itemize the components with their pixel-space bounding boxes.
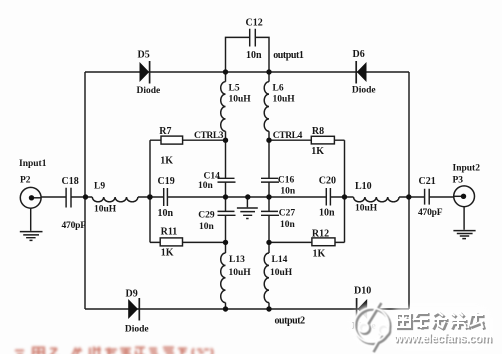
junction C12 left leg / top rail [223,69,228,74]
capacitor C29 [218,211,236,215]
wire L14 to bottom rail [268,303,270,309]
svg-text:C27: C27 [279,208,296,218]
svg-text:10n: 10n [280,187,296,197]
junction C20 / R8-R12 loop / L10 [342,194,347,199]
ground P2 stub [30,208,32,231]
svg-text:10n: 10n [319,208,335,219]
watermark chinese brand glyphs [397,312,485,330]
svg-text:1K: 1K [311,146,324,157]
left column top stub [225,72,227,82]
svg-text:output2: output2 [275,316,306,327]
resistor R11 [160,238,182,246]
connector P2 pin line [34,197,42,199]
svg-text:L9: L9 [94,182,105,192]
svg-text:C20: C20 [319,176,336,187]
junction C12 right leg / top rail [266,69,271,74]
diode D10 [358,299,368,319]
wire L5 to CTRL3 node [225,131,227,140]
svg-text:D9: D9 [126,289,138,300]
svg-text:Input2: Input2 [453,164,481,174]
svg-text:C29: C29 [198,210,215,220]
svg-text:10n: 10n [199,222,215,232]
junction ground stub / center wire [245,194,250,199]
connector P3 center dot [461,194,466,199]
wire input1 to C18 [41,196,66,198]
wire left rail [84,72,86,309]
svg-text:C16: C16 [278,175,295,185]
svg-text:10n: 10n [158,208,174,219]
connector P3 pin line [454,195,461,197]
wire L13 to bottom rail [225,303,227,309]
svg-text:10uH: 10uH [229,268,252,278]
ground P2 bars [20,232,43,241]
svg-text:CTRL3: CTRL3 [194,131,224,141]
connector P2 center dot [29,195,34,200]
svg-text:L6: L6 [273,84,284,94]
svg-text:D6: D6 [353,49,365,60]
connector P3 circle [454,186,475,207]
watermark white glow backdrop [352,305,489,346]
svg-text:C18: C18 [62,176,79,187]
capacitor C12 branch [226,37,270,72]
svg-text:L10: L10 [355,181,372,192]
svg-text:470pF: 470pF [418,208,443,218]
inductor L10 [354,197,400,202]
wire center to right column [226,196,270,198]
inductor L13 [221,253,226,303]
svg-text:1K: 1K [313,248,326,259]
ground P3 bars [453,231,475,239]
svg-text:R7: R7 [159,126,171,137]
node CTRL3 [223,138,228,143]
svg-text:www.elecfans.com: www.elecfans.com [393,333,492,345]
svg-text:C12: C12 [246,18,263,29]
ground center bars [237,208,258,219]
svg-text:C19: C19 [158,176,175,187]
junction L14 / bottom rail [266,306,271,311]
wire C20 to L10 [331,196,354,198]
wire right column to C20 [269,196,326,198]
capacitor C21 [425,189,430,205]
svg-text:Diode: Diode [125,325,149,335]
junction left column / R11 row [223,240,228,245]
junction right column / R12 row [266,240,271,245]
watermark logo elecfans [354,302,390,353]
capacitor C19 [164,188,168,206]
inductor L14 [264,253,269,303]
svg-text:R8: R8 [312,126,324,137]
wire L10 to right rail and C21 [399,196,424,198]
inductor L9 [92,197,138,202]
capacitor C27 [261,211,279,215]
svg-text:L13: L13 [229,255,245,265]
wire C19 to left column [168,196,226,198]
svg-text:10n: 10n [198,181,214,191]
wire C21 to P3 [429,196,454,198]
svg-text:10uH: 10uH [229,95,252,105]
wire CTRL3 node to C14 [225,140,227,178]
svg-text:10n: 10n [246,50,262,61]
junction L13 / bottom rail [223,306,228,311]
wire CTRL4 node to C16 [268,140,270,178]
left loop vertical wire [149,140,151,242]
wire L6 to CTRL4 node [268,131,270,140]
wire C14 to center [225,182,227,211]
svg-text:470pF: 470pF [62,221,87,231]
diode D6 [357,62,367,82]
capacitor C16 [261,178,279,182]
inductor L6 [264,82,269,132]
wire R11 leads [150,241,226,243]
wire R7 leads [150,139,226,141]
svg-text:10n: 10n [280,220,296,230]
svg-text:1K: 1K [160,156,173,167]
node CTRL4 [266,138,271,143]
wire R8 leads [269,139,345,141]
inductor L5 [221,82,226,132]
svg-text:R11: R11 [161,227,178,238]
right loop vertical wire [344,140,346,242]
svg-text:C21: C21 [419,176,436,187]
svg-text:CTRL4: CTRL4 [273,131,303,141]
wire C27 to node [268,215,270,253]
wire right rail [408,72,410,309]
wire bottom rail [85,308,409,310]
svg-text:D10: D10 [354,286,371,297]
svg-text:output1: output1 [273,50,304,61]
svg-text:Diode: Diode [352,86,376,96]
svg-text:Input1: Input1 [19,159,47,169]
svg-text:P3: P3 [453,176,464,186]
svg-text:10uH: 10uH [270,268,293,278]
caption red text bottom left [15,347,213,354]
wire C18 to L9 [71,196,92,198]
svg-text:L5: L5 [229,84,240,94]
capacitor C20 [326,188,330,206]
wire C16 to center [268,182,270,211]
svg-text:P2: P2 [20,176,31,186]
ground center stub [246,197,248,207]
resistor R7 [161,136,183,144]
junction left rail / input wire [83,194,88,199]
svg-text:10uH: 10uH [94,205,117,215]
junction L9 / R7-R11 loop / C19 [147,194,153,200]
junction right rail / center wire [406,194,411,199]
svg-text:L14: L14 [272,255,288,265]
junction left column / center wire [223,194,228,199]
wire L9 to C19 [138,196,164,198]
svg-text:Diode: Diode [137,86,161,96]
resistor R8 [311,136,334,144]
diode D5 [140,62,150,82]
capacitor C14 [218,178,236,182]
right column top stub [268,72,270,82]
capacitor C18 [66,188,71,208]
svg-text:D5: D5 [138,50,150,61]
connector P2 circle [20,187,41,208]
ground P3 stub [463,207,465,230]
wire R12 leads [269,241,345,243]
svg-text:R12: R12 [312,228,329,239]
svg-text:10uH: 10uH [355,204,378,214]
resistor R12 [312,238,335,246]
svg-text:10uH: 10uH [273,95,296,105]
wire C29 to node [225,215,227,253]
svg-text:C14: C14 [204,171,221,181]
diode D9 [128,299,138,319]
junction right column / center wire [266,194,271,199]
capacitor C12 plates [250,29,256,47]
wire top rail [85,71,409,73]
svg-text:1K: 1K [161,248,174,259]
watermark url text [393,333,493,346]
